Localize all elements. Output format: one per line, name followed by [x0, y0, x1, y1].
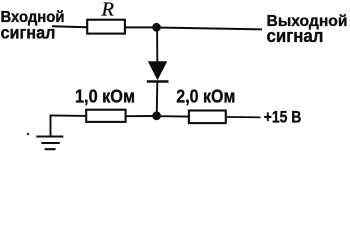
junction: top node [152, 23, 161, 32]
diode D1 [147, 61, 169, 81]
wire: top junction to output [157, 28, 262, 30]
node: input signal label [1, 9, 65, 43]
wire: bottom junction to resistor R2 [159, 115, 189, 117]
wire: resistor R to top junction [125, 26, 156, 28]
node: output signal label [267, 13, 348, 46]
svg-text:1,0 кОм: 1,0 кОм [75, 86, 135, 106]
wire: R1 to bottom junction [127, 115, 154, 117]
wire: R2 to +15V [227, 116, 261, 118]
svg-text:2,0 кОм: 2,0 кОм [176, 87, 235, 107]
resistor R2 [189, 111, 226, 124]
wire: input to resistor R [52, 26, 87, 27]
ground [36, 115, 63, 150]
resistor R1 [86, 110, 125, 122]
svg-text:сигнал: сигнал [1, 23, 56, 43]
junction: bottom node [152, 111, 161, 120]
speck (scan artifact) [27, 133, 29, 135]
wire: ground to resistor R1 [50, 114, 87, 117]
resistor R [87, 20, 125, 34]
svg-text:+15 В: +15 В [264, 108, 302, 127]
svg-text:R: R [100, 0, 114, 21]
wire: top junction down to diode [156, 29, 158, 62]
svg-text:сигнал: сигнал [267, 26, 324, 46]
wire: diode to bottom junction [156, 83, 159, 114]
